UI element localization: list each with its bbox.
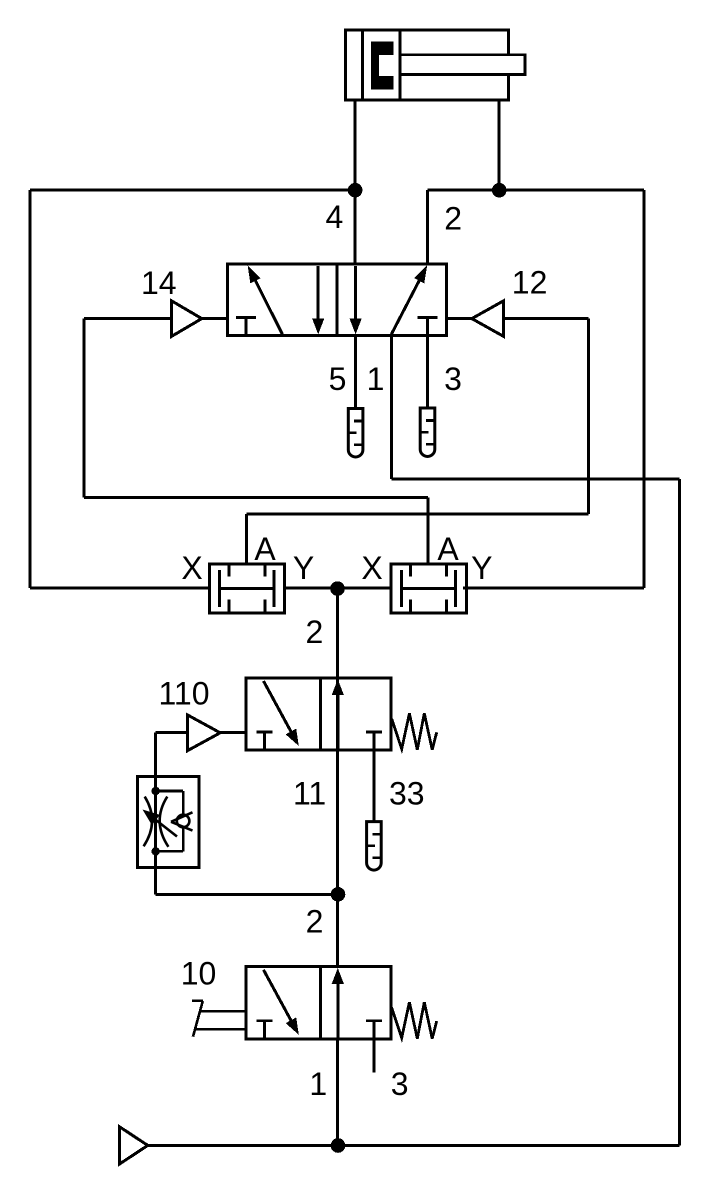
svg-text:1: 1 — [367, 361, 385, 397]
svg-text:11: 11 — [293, 776, 326, 812]
svg-text:4: 4 — [326, 199, 344, 235]
svg-text:10: 10 — [181, 956, 217, 992]
svg-text:3: 3 — [444, 361, 462, 397]
svg-text:2: 2 — [306, 904, 324, 940]
svg-text:X: X — [181, 550, 202, 586]
svg-text:A: A — [254, 531, 276, 567]
svg-text:Y: Y — [293, 550, 314, 586]
svg-text:3: 3 — [391, 1066, 409, 1102]
svg-text:110: 110 — [158, 676, 209, 712]
svg-text:33: 33 — [389, 776, 425, 812]
svg-text:1: 1 — [309, 1066, 327, 1102]
svg-text:5: 5 — [329, 361, 347, 397]
svg-text:X: X — [361, 550, 382, 586]
svg-text:A: A — [437, 531, 459, 567]
svg-text:Y: Y — [471, 550, 492, 586]
svg-text:2: 2 — [444, 200, 462, 236]
svg-text:2: 2 — [306, 614, 324, 650]
svg-text:14: 14 — [141, 265, 177, 301]
svg-text:12: 12 — [512, 265, 548, 301]
